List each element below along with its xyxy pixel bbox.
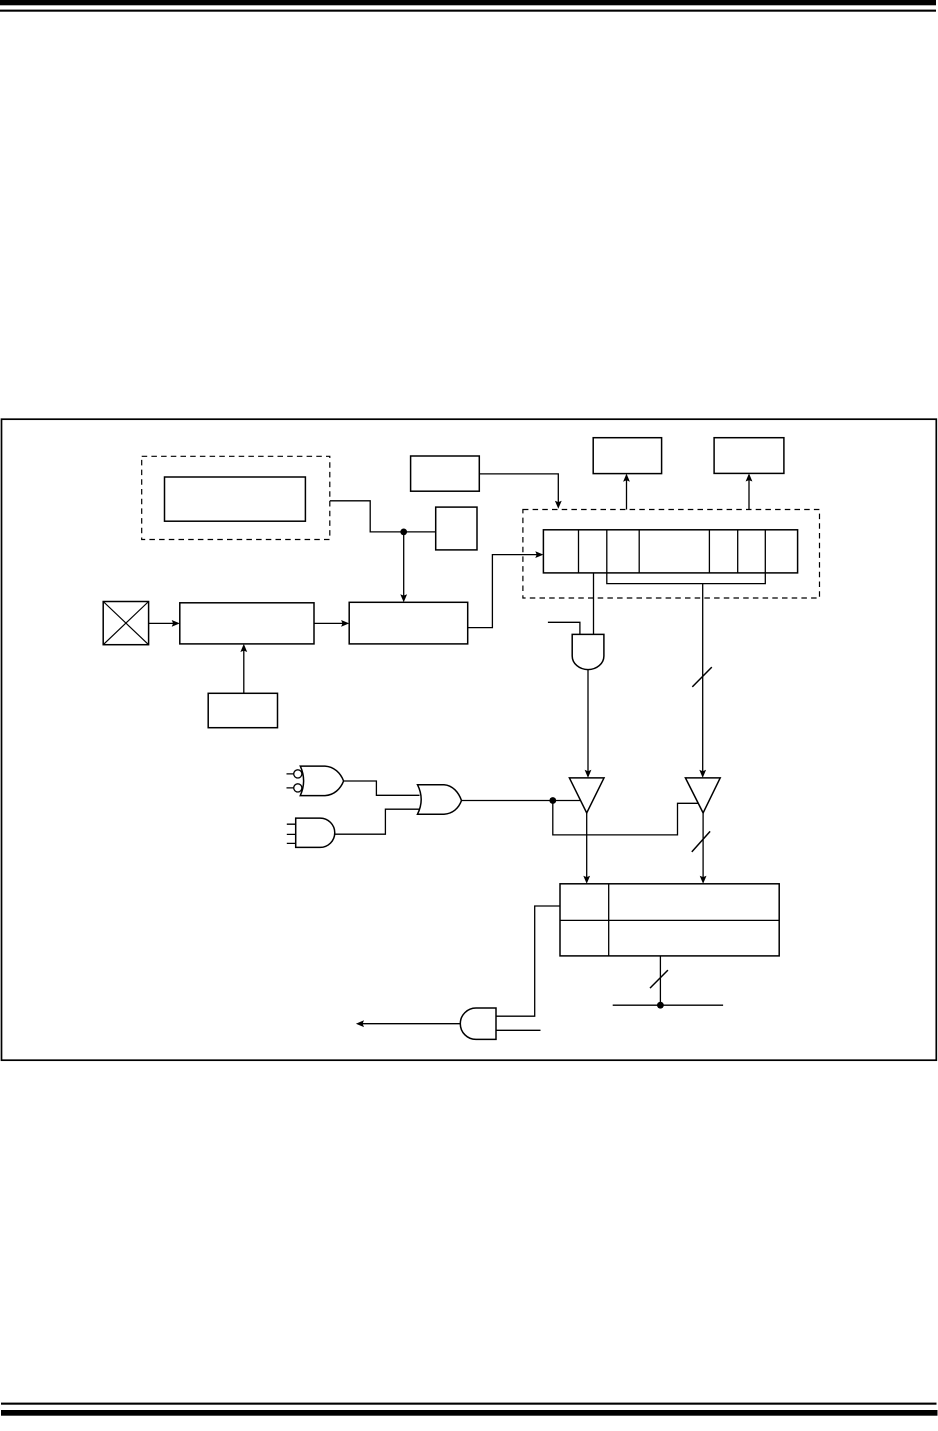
G1 input bubble 2	[294, 784, 302, 792]
wire: clock group to node A and mode box	[330, 501, 436, 532]
wire: data bus segment	[613, 1004, 723, 1006]
wire: counter to register data input	[468, 555, 542, 628]
page footer thick rule	[1, 1410, 938, 1416]
page footer thin rule	[1, 1403, 937, 1405]
gate: OR with negated inputs G1	[300, 766, 343, 796]
wire: G4 output arrow left	[358, 1023, 461, 1025]
node B junction dot	[549, 797, 556, 804]
wire: prescaler to counter	[314, 622, 347, 624]
gate: 3-input AND G2	[296, 818, 335, 847]
wire: G1 output to OR gate	[344, 781, 420, 795]
G2 input stubs	[287, 824, 296, 843]
wire: crossed box to prescaler	[149, 622, 178, 624]
gate: OR G3	[418, 785, 462, 815]
bus width slash 2	[692, 831, 710, 852]
block: prescaler	[180, 603, 314, 644]
page header thin rule	[0, 10, 936, 12]
dashed block: register group	[523, 510, 820, 599]
wire: bus from bracket down to right buffer	[702, 584, 704, 777]
wire: AND gate left input stub	[548, 622, 580, 634]
G1 input stubs	[287, 774, 294, 788]
register bit dividers	[579, 530, 766, 573]
AND gate (down-pointing)	[572, 634, 604, 669]
wire: node A down to counter block	[403, 532, 405, 601]
dashed block: clock source group	[142, 456, 330, 539]
wire: bottom AND second input stub	[496, 1029, 541, 1031]
wire: result register to bottom AND	[496, 906, 560, 1016]
page header thick rule	[0, 0, 936, 5]
wire: reload box up to prescaler	[243, 646, 245, 694]
block: small mode box	[436, 507, 477, 550]
gate: bottom AND (left-pointing) G4	[460, 1008, 496, 1039]
block: top right box	[714, 438, 784, 474]
wire: G3 output to buffers enable	[462, 800, 581, 802]
bus width slash 1	[692, 667, 712, 687]
bus width slash 3	[650, 970, 668, 988]
wire: enable to right buffer	[553, 801, 699, 835]
block: top middle box	[593, 438, 661, 474]
block: counter	[349, 602, 468, 644]
block: crossed external clock box	[103, 602, 148, 645]
wire: register group up to top middle box	[626, 475, 628, 509]
wire: register group up to top right box	[748, 475, 750, 509]
block: inner clock box	[165, 477, 306, 521]
wire: right buffer output down	[702, 813, 704, 882]
register: two-row result register	[560, 884, 779, 956]
wire: register bit down to AND gate	[593, 573, 595, 635]
G1 input bubble 1	[294, 770, 302, 778]
node A junction dot	[400, 529, 407, 536]
tri-state buffer right	[685, 778, 720, 813]
node C junction dot	[657, 1002, 664, 1009]
wire: left buffer output down	[586, 813, 588, 882]
wire: AND output down to left buffer	[587, 670, 589, 777]
block: reload box	[208, 693, 277, 727]
wire: control box to register group	[479, 474, 558, 507]
wire: bracket under register bits	[607, 573, 766, 584]
block: top-left control box	[411, 456, 480, 491]
figure frame	[2, 419, 937, 1060]
register: bit-field register	[543, 530, 797, 573]
tri-state buffer left	[569, 778, 604, 813]
wire: result register bottom to data bus	[659, 956, 661, 1005]
wire: G2 output to OR gate	[335, 809, 420, 834]
